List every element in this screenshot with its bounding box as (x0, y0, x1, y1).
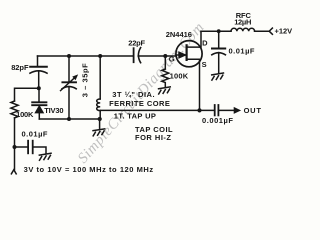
wire left rail down (14, 118, 16, 170)
wire bottom rail (39, 118, 99, 120)
svg-text:0.01µF: 0.01µF (229, 47, 256, 56)
inductor L2 RFC 12uH (231, 28, 255, 31)
svg-text:1T. TAP UP: 1T. TAP UP (114, 112, 156, 121)
svg-text:3V to 10V = 100 MHz to 120 MHz: 3V to 10V = 100 MHz to 120 MHz (24, 165, 154, 174)
capacitor C5 0.01uF (27, 141, 29, 154)
terminal tuning-voltage input (11, 170, 16, 174)
svg-text:100K: 100K (16, 110, 34, 119)
wire tap to source/out rail (100, 109, 214, 111)
capacitor C3 22pF (133, 48, 135, 62)
node A 82pF/varactor (37, 86, 41, 90)
svg-text:FOR HI-Z: FOR HI-Z (135, 133, 172, 142)
node coil top (98, 54, 102, 58)
wire rail right of 22pF (138, 55, 176, 57)
node varcap bottom (67, 117, 71, 121)
node source / tap rail (197, 108, 201, 112)
svg-text:D: D (202, 38, 208, 47)
wire 82pF to node A (38, 71, 40, 88)
varactor D1 TIV30 (38, 88, 40, 102)
capacitor C4 0.01uF drain bypass (218, 31, 220, 48)
svg-text:G: G (169, 55, 175, 64)
ground drain bypass (211, 73, 224, 81)
svg-text:12µH: 12µH (234, 18, 251, 27)
capacitor C2 variable 3-35pF (68, 56, 70, 82)
node gate (163, 54, 167, 58)
node +12V rail / bypass (217, 29, 221, 33)
wire source to tap rail (187, 59, 200, 110)
wire coil ground stub (99, 119, 101, 128)
ground 0.01uF bottom-left (39, 153, 52, 161)
svg-text:3T ¼" DIA.: 3T ¼" DIA. (112, 90, 155, 99)
wire +12V rail (201, 30, 231, 32)
svg-text:3 – 35pF: 3 – 35pF (80, 63, 89, 97)
wire to 0.01uF (15, 146, 28, 148)
node var-cap top (67, 54, 71, 58)
svg-text:100K: 100K (170, 71, 189, 80)
capacitor C1 82pF (30, 66, 47, 68)
terminal +12V (269, 28, 272, 34)
svg-text:OUT: OUT (244, 106, 262, 115)
svg-text:2N4416: 2N4416 (166, 30, 192, 39)
svg-text:0.001µF: 0.001µF (202, 116, 234, 125)
capacitor C6 0.001uF out (214, 105, 216, 115)
ground gate resistor (158, 87, 171, 95)
ground coil (92, 129, 105, 137)
resistor R1 100K (11, 101, 18, 118)
svg-text:82pF: 82pF (11, 63, 29, 72)
transistor Q1 2N4416 (176, 41, 202, 67)
wire coil bottom (99, 111, 101, 119)
wire drain to +12V rail (187, 31, 201, 47)
resistor R2 100K gate (164, 56, 166, 69)
node coil bottom (98, 117, 102, 121)
node left rail / 0.01uF (13, 145, 17, 149)
wire 82pF column top (37, 56, 39, 66)
svg-text:0.01µF: 0.01µF (22, 129, 49, 138)
svg-text:TIV30: TIV30 (44, 106, 63, 115)
wire 0.01uF to ground (33, 147, 46, 153)
svg-text:FERRITE CORE: FERRITE CORE (109, 99, 170, 108)
svg-text:S: S (202, 60, 207, 69)
inductor L1 tap coil (99, 56, 101, 99)
arrow OUT (234, 108, 240, 113)
wire top rail (38, 55, 134, 57)
svg-text:22pF: 22pF (128, 38, 145, 47)
svg-text:+12V: +12V (275, 27, 293, 36)
wire node A to left rail (15, 88, 40, 101)
